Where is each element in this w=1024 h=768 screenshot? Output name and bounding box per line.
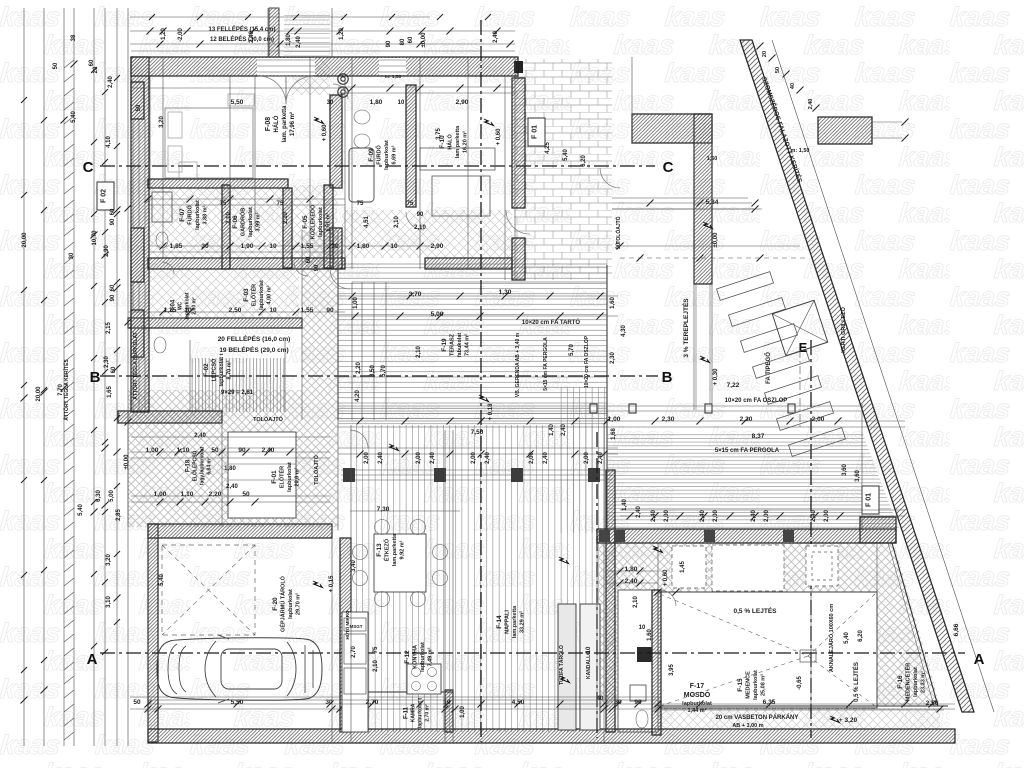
svg-text:19 BELÉPÉS (29,0 cm): 19 BELÉPÉS (29,0 cm) bbox=[219, 345, 288, 354]
svg-text:2,40: 2,40 bbox=[430, 452, 436, 464]
svg-text:90: 90 bbox=[417, 212, 424, 218]
svg-text:4,25: 4,25 bbox=[545, 142, 551, 154]
svg-text:1,20: 1,20 bbox=[339, 28, 345, 40]
svg-text:±0,00: ±0,00 bbox=[124, 454, 130, 470]
svg-text:10: 10 bbox=[390, 243, 398, 250]
svg-text:HÁLÓ: HÁLÓ bbox=[445, 133, 453, 149]
svg-text:13 FELLÉPÉS (15,4 cm): 13 FELLÉPÉS (15,4 cm) bbox=[208, 25, 275, 33]
svg-text:2,30: 2,30 bbox=[610, 352, 616, 364]
svg-text:17,96 m²: 17,96 m² bbox=[289, 112, 296, 136]
svg-text:VB. GERENDA AB + 3,40 m: VB. GERENDA AB + 3,40 m bbox=[515, 332, 521, 397]
svg-text:23,33 m²: 23,33 m² bbox=[919, 671, 926, 693]
svg-text:10: 10 bbox=[269, 243, 277, 250]
svg-text:2,10: 2,10 bbox=[416, 346, 422, 358]
svg-text:6,51 m²: 6,51 m² bbox=[324, 212, 331, 231]
svg-text:lapburkolat: lapburkolat bbox=[384, 140, 390, 170]
svg-text:8,70 m²: 8,70 m² bbox=[225, 360, 232, 379]
svg-text:lam parketta: lam parketta bbox=[455, 125, 461, 158]
svg-text:F-11: F-11 bbox=[404, 706, 410, 719]
svg-text:2,30: 2,30 bbox=[662, 416, 675, 423]
svg-text:9,92 m²: 9,92 m² bbox=[398, 540, 405, 559]
svg-text:1,00: 1,00 bbox=[608, 416, 621, 423]
svg-text:16,20 m²: 16,20 m² bbox=[461, 131, 468, 153]
svg-text:1,44 m²: 1,44 m² bbox=[688, 707, 707, 714]
svg-text:6,20: 6,20 bbox=[858, 630, 864, 642]
svg-text:±0,00: ±0,00 bbox=[713, 232, 719, 248]
svg-text:7,70: 7,70 bbox=[58, 384, 64, 396]
svg-text:lapburkolat: lapburkolat bbox=[420, 642, 426, 672]
svg-text:F-02: F-02 bbox=[203, 363, 210, 377]
svg-text:60: 60 bbox=[110, 284, 116, 291]
svg-text:2,00: 2,00 bbox=[364, 452, 370, 464]
svg-text:lapburkolat t: lapburkolat t bbox=[219, 353, 225, 386]
svg-text:1,80: 1,80 bbox=[224, 466, 236, 472]
svg-text:6,84 m²: 6,84 m² bbox=[207, 457, 213, 475]
svg-text:50: 50 bbox=[775, 67, 781, 73]
svg-text:2,30: 2,30 bbox=[104, 356, 110, 368]
svg-text:0,5 % LEJTÉS: 0,5 % LEJTÉS bbox=[852, 662, 860, 702]
svg-text:F-15: F-15 bbox=[737, 678, 744, 692]
svg-text:90: 90 bbox=[386, 40, 392, 47]
svg-text:MOSDÓ: MOSDÓ bbox=[684, 690, 711, 699]
svg-text:AB + 3,00 m: AB + 3,00 m bbox=[732, 723, 763, 729]
svg-text:38: 38 bbox=[71, 34, 77, 41]
svg-text:1,10: 1,10 bbox=[177, 447, 190, 454]
svg-text:KERTI GRILLEZŐ: KERTI GRILLEZŐ bbox=[840, 306, 847, 353]
svg-text:75: 75 bbox=[357, 201, 364, 207]
svg-text:1,10: 1,10 bbox=[181, 491, 194, 498]
svg-text:90: 90 bbox=[326, 307, 334, 314]
svg-text:2,00: 2,00 bbox=[584, 452, 590, 464]
svg-text:1,40: 1,40 bbox=[549, 424, 555, 436]
svg-text:10: 10 bbox=[639, 625, 646, 631]
svg-text:WC: WC bbox=[178, 301, 184, 310]
svg-text:60: 60 bbox=[110, 208, 116, 215]
svg-text:1,20: 1,20 bbox=[161, 28, 167, 40]
svg-text:F-05: F-05 bbox=[302, 215, 309, 229]
svg-text:NAPPALI: NAPPALI bbox=[504, 610, 510, 634]
svg-text:4,51: 4,51 bbox=[364, 216, 370, 228]
svg-text:2,10: 2,10 bbox=[283, 212, 289, 224]
svg-text:2,10: 2,10 bbox=[394, 216, 400, 228]
svg-text:+ 0,18: + 0,18 bbox=[488, 403, 494, 421]
svg-text:5,40: 5,40 bbox=[71, 111, 77, 123]
svg-text:F-14: F-14 bbox=[496, 615, 503, 629]
svg-text:7,49 m²: 7,49 m² bbox=[426, 647, 433, 666]
svg-text:lapburkolat: lapburkolat bbox=[185, 292, 191, 319]
svg-text:20,00: 20,00 bbox=[36, 386, 42, 402]
svg-text:lapburkolat: lapburkolat bbox=[753, 670, 759, 700]
svg-text:lapburkolat: lapburkolat bbox=[195, 200, 201, 230]
svg-text:3,10: 3,10 bbox=[106, 596, 112, 608]
svg-text:6,30: 6,30 bbox=[96, 490, 102, 502]
svg-text:5,40: 5,40 bbox=[159, 574, 165, 586]
svg-text:lapburkolat: lapburkolat bbox=[318, 207, 324, 237]
svg-text:2,40: 2,40 bbox=[296, 36, 302, 48]
svg-text:3,20: 3,20 bbox=[159, 116, 165, 128]
svg-text:40: 40 bbox=[597, 696, 604, 702]
svg-text:10×20 cm FA TARTÓ: 10×20 cm FA TARTÓ bbox=[522, 318, 581, 326]
svg-text:60: 60 bbox=[89, 59, 95, 66]
svg-text:3,70: 3,70 bbox=[409, 291, 422, 298]
svg-text:+ 0,30: + 0,30 bbox=[713, 368, 719, 386]
svg-text:F 01: F 01 bbox=[866, 493, 873, 507]
svg-text:2,40: 2,40 bbox=[262, 447, 275, 454]
svg-text:1,80: 1,80 bbox=[357, 243, 370, 250]
svg-text:2,00: 2,00 bbox=[416, 452, 422, 464]
svg-text:3,20: 3,20 bbox=[106, 554, 112, 566]
svg-text:2,40: 2,40 bbox=[625, 578, 638, 585]
svg-text:5,50: 5,50 bbox=[231, 99, 244, 106]
svg-text:2,00: 2,00 bbox=[764, 510, 770, 522]
svg-text:9×29 = 2,61: 9×29 = 2,61 bbox=[221, 390, 254, 396]
svg-text:3,60: 3,60 bbox=[855, 470, 861, 482]
svg-text:F-20: F-20 bbox=[272, 597, 279, 611]
svg-text:2,40: 2,40 bbox=[249, 31, 255, 43]
svg-text:HÁLÓ: HÁLÓ bbox=[272, 115, 280, 132]
svg-text:TOLÓAJTÓ: TOLÓAJTÓ bbox=[253, 415, 284, 423]
svg-text:lam.parketta: lam.parketta bbox=[512, 605, 518, 638]
svg-text:73,44 m²: 73,44 m² bbox=[463, 334, 470, 356]
svg-text:6,66: 6,66 bbox=[953, 623, 960, 636]
svg-text:1,65: 1,65 bbox=[107, 386, 113, 398]
svg-text:2,40: 2,40 bbox=[493, 31, 499, 43]
svg-text:4,20: 4,20 bbox=[355, 390, 361, 402]
svg-text:F-13: F-13 bbox=[376, 543, 383, 557]
svg-text:A: A bbox=[974, 651, 985, 668]
svg-text:ELŐTÉR: ELŐTÉR bbox=[249, 284, 257, 306]
svg-text:2,90: 2,90 bbox=[104, 245, 110, 257]
svg-text:2,00: 2,00 bbox=[824, 510, 830, 522]
svg-text:LÉPCSŐ: LÉPCSŐ bbox=[209, 358, 217, 381]
svg-text:10: 10 bbox=[398, 100, 405, 106]
svg-text:-2,00: -2,00 bbox=[178, 28, 184, 42]
svg-text:7,50: 7,50 bbox=[471, 429, 484, 436]
svg-text:4,30: 4,30 bbox=[621, 325, 627, 337]
svg-text:10,70: 10,70 bbox=[92, 230, 98, 246]
svg-text:2,20: 2,20 bbox=[356, 362, 362, 374]
svg-text:29,70 m²: 29,70 m² bbox=[294, 593, 301, 615]
svg-text:20: 20 bbox=[762, 51, 768, 57]
svg-text:ÉTKEZŐ: ÉTKEZŐ bbox=[382, 538, 390, 561]
svg-text:5,70: 5,70 bbox=[381, 365, 387, 377]
svg-text:2,00: 2,00 bbox=[664, 510, 670, 522]
svg-text:MEDENCETÉR: MEDENCETÉR bbox=[903, 663, 911, 702]
svg-text:50: 50 bbox=[136, 104, 142, 111]
svg-text:F-19: F-19 bbox=[441, 338, 448, 352]
svg-text:50: 50 bbox=[211, 447, 219, 454]
svg-text:2,10: 2,10 bbox=[373, 660, 379, 672]
svg-text:60: 60 bbox=[306, 256, 312, 263]
svg-text:2,40: 2,40 bbox=[543, 452, 549, 464]
svg-text:20,0 m²: 20,0 m² bbox=[293, 467, 300, 486]
svg-text:2,90: 2,90 bbox=[431, 243, 444, 250]
svg-text:lapburkolat: lapburkolat bbox=[259, 280, 265, 310]
svg-text:1,80: 1,80 bbox=[286, 34, 292, 46]
svg-text:F-18: F-18 bbox=[186, 459, 192, 472]
svg-text:ELŐTÉR: ELŐTÉR bbox=[277, 466, 285, 488]
svg-text:40: 40 bbox=[790, 83, 796, 89]
svg-text:F-09: F-09 bbox=[368, 148, 375, 162]
svg-text:2,20: 2,20 bbox=[209, 491, 222, 498]
svg-text:1,45: 1,45 bbox=[680, 561, 686, 573]
svg-text:10×20 cm FA OSZLOP: 10×20 cm FA OSZLOP bbox=[584, 335, 590, 388]
svg-text:2,00: 2,00 bbox=[471, 452, 477, 464]
svg-text:C: C bbox=[663, 159, 674, 176]
svg-text:5,00: 5,00 bbox=[109, 490, 115, 502]
svg-text:90: 90 bbox=[110, 218, 116, 225]
svg-text:KAMRA: KAMRA bbox=[411, 703, 417, 722]
svg-text:F-03: F-03 bbox=[243, 288, 250, 302]
svg-text:F 01: F 01 bbox=[532, 125, 539, 139]
svg-text:30: 30 bbox=[327, 100, 334, 106]
svg-text:1,85: 1,85 bbox=[170, 243, 183, 250]
svg-text:3,75: 3,75 bbox=[436, 128, 442, 140]
svg-text:±0,00: ±0,00 bbox=[421, 32, 427, 48]
svg-text:5×15 cm FA PERGOLA: 5×15 cm FA PERGOLA bbox=[543, 337, 549, 391]
svg-text:7,30: 7,30 bbox=[377, 506, 390, 513]
svg-text:6,20: 6,20 bbox=[581, 155, 587, 167]
svg-text:KONYHA: KONYHA bbox=[412, 645, 418, 669]
svg-text:2,70 m²: 2,70 m² bbox=[425, 704, 431, 722]
svg-text:25,08 m²: 25,08 m² bbox=[759, 674, 766, 696]
svg-text:2,40: 2,40 bbox=[194, 433, 206, 439]
svg-text:lam. parketta: lam. parketta bbox=[282, 105, 288, 143]
svg-text:+ 0,60: + 0,60 bbox=[496, 128, 502, 146]
svg-text:20 cm VASBETON PÁRKÁNY: 20 cm VASBETON PÁRKÁNY bbox=[716, 714, 799, 721]
svg-text:60: 60 bbox=[408, 36, 414, 43]
svg-text:TOLÓAJTÓ: TOLÓAJTÓ bbox=[614, 216, 622, 243]
svg-text:lapburkolat: lapburkolat bbox=[287, 462, 293, 492]
svg-text:A: A bbox=[87, 651, 98, 668]
svg-text:F-06: F-06 bbox=[232, 215, 239, 229]
svg-text:2,50: 2,50 bbox=[229, 307, 242, 314]
svg-text:2,40: 2,40 bbox=[485, 452, 491, 464]
svg-text:1,55: 1,55 bbox=[301, 307, 314, 314]
svg-text:12 BELÉPÉS (30,0 cm): 12 BELÉPÉS (30,0 cm) bbox=[210, 35, 274, 43]
svg-text:m: 1,50: m: 1,50 bbox=[791, 148, 810, 154]
svg-text:fabukolat: fabukolat bbox=[457, 333, 463, 358]
svg-text:20,00: 20,00 bbox=[22, 232, 28, 248]
svg-text:-0,65: -0,65 bbox=[797, 676, 803, 690]
svg-text:75: 75 bbox=[373, 646, 379, 653]
svg-text:1,80: 1,80 bbox=[625, 566, 638, 573]
svg-text:75: 75 bbox=[407, 201, 414, 207]
svg-text:5,40: 5,40 bbox=[844, 632, 850, 644]
svg-text:GARDRÓB: GARDRÓB bbox=[238, 208, 246, 236]
svg-text:2,40: 2,40 bbox=[378, 452, 384, 464]
svg-text:4,00 m²: 4,00 m² bbox=[265, 285, 272, 304]
svg-text:10: 10 bbox=[586, 646, 592, 653]
svg-text:1,80: 1,80 bbox=[370, 99, 383, 106]
svg-text:2,15: 2,15 bbox=[106, 322, 112, 334]
svg-text:F-17: F-17 bbox=[690, 683, 705, 690]
svg-text:5×15 cm FA PERGOLA: 5×15 cm FA PERGOLA bbox=[715, 448, 780, 454]
svg-text:1,25: 1,25 bbox=[164, 307, 177, 314]
svg-text:GÉPJÁRMŰ TÁROLÓ: GÉPJÁRMŰ TÁROLÓ bbox=[278, 575, 286, 632]
svg-text:TERASZ: TERASZ bbox=[449, 333, 455, 356]
svg-text:MSGT: MSGT bbox=[350, 624, 363, 629]
svg-text:75: 75 bbox=[277, 201, 284, 207]
svg-text:20 FELLÉPÉS (16,0 cm): 20 FELLÉPÉS (16,0 cm) bbox=[218, 334, 291, 343]
svg-text:lam.parketta: lam.parketta bbox=[392, 533, 398, 566]
svg-text:2,10: 2,10 bbox=[633, 596, 639, 608]
svg-text:6,69 m²: 6,69 m² bbox=[390, 145, 397, 164]
svg-text:B: B bbox=[662, 369, 673, 386]
svg-text:2,10: 2,10 bbox=[414, 225, 426, 231]
svg-text:5,70: 5,70 bbox=[569, 344, 575, 356]
svg-text:1,40: 1,40 bbox=[622, 499, 628, 511]
svg-text:ÁTTÖRT TÉGLA BURKOLAT: ÁTTÖRT TÉGLA BURKOLAT bbox=[131, 332, 139, 400]
svg-text:C: C bbox=[83, 159, 94, 176]
svg-text:75: 75 bbox=[220, 201, 227, 207]
svg-text:2,00: 2,00 bbox=[713, 510, 719, 522]
svg-text:50: 50 bbox=[133, 699, 141, 706]
svg-text:2,10: 2,10 bbox=[226, 212, 232, 224]
svg-text:3,88 m²: 3,88 m² bbox=[201, 205, 208, 224]
svg-text:FÜRDŐ: FÜRDŐ bbox=[186, 205, 193, 225]
svg-text:50: 50 bbox=[242, 491, 250, 498]
svg-text:0,5 % LEJTÉS: 0,5 % LEJTÉS bbox=[734, 606, 778, 615]
svg-text:90: 90 bbox=[314, 264, 320, 271]
svg-text:lapburkolat t: lapburkolat t bbox=[418, 698, 424, 728]
svg-text:5,40: 5,40 bbox=[563, 149, 569, 161]
svg-text:2,40: 2,40 bbox=[561, 424, 567, 436]
svg-text:33,29 m²: 33,29 m² bbox=[518, 611, 525, 633]
svg-text:80: 80 bbox=[400, 38, 406, 45]
svg-text:FA TIPEGŐ: FA TIPEGŐ bbox=[765, 352, 772, 384]
svg-text:4,10: 4,10 bbox=[106, 136, 112, 148]
svg-text:1,00: 1,00 bbox=[154, 491, 167, 498]
svg-text:1,00: 1,00 bbox=[460, 706, 466, 718]
svg-text:7,22: 7,22 bbox=[727, 382, 740, 389]
svg-text:F-12: F-12 bbox=[404, 650, 411, 664]
svg-text:2,85: 2,85 bbox=[116, 509, 122, 521]
svg-text:30: 30 bbox=[69, 252, 75, 259]
svg-text:FÜRDŐ: FÜRDŐ bbox=[375, 145, 382, 165]
svg-text:2,00: 2,00 bbox=[812, 416, 825, 423]
svg-text:KANDALLÓ: KANDALLÓ bbox=[584, 651, 592, 679]
svg-text:10×20 cm FA OSZLOP: 10×20 cm FA OSZLOP bbox=[725, 398, 788, 404]
svg-text:m: 1,50: m: 1,50 bbox=[385, 74, 402, 80]
svg-text:5,40: 5,40 bbox=[78, 504, 84, 516]
svg-text:3 % TEREPLEJTÉS: 3 % TEREPLEJTÉS bbox=[681, 298, 690, 358]
svg-text:MEDENCE: MEDENCE bbox=[745, 671, 751, 699]
svg-text:TOLÓAJTÓ: TOLÓAJTÓ bbox=[312, 454, 320, 485]
svg-text:90: 90 bbox=[110, 294, 116, 301]
svg-text:+ 0,60: + 0,60 bbox=[663, 569, 669, 587]
svg-text:50: 50 bbox=[53, 62, 59, 69]
svg-text:F-08: F-08 bbox=[265, 117, 272, 132]
svg-text:1,55: 1,55 bbox=[301, 243, 314, 250]
svg-text:60: 60 bbox=[111, 366, 117, 373]
svg-text:1,68: 1,68 bbox=[611, 428, 617, 440]
svg-text:1,60: 1,60 bbox=[610, 297, 616, 309]
svg-text:+ 3,20: + 3,20 bbox=[839, 717, 858, 724]
svg-text:3,40: 3,40 bbox=[351, 560, 357, 572]
svg-text:lapburkolat: lapburkolat bbox=[913, 667, 919, 697]
svg-text:1,30: 1,30 bbox=[499, 289, 512, 296]
svg-text:2,40: 2,40 bbox=[108, 76, 114, 88]
svg-text:F-01: F-01 bbox=[271, 470, 278, 484]
svg-text:F-07: F-07 bbox=[179, 208, 186, 222]
svg-text:8,37: 8,37 bbox=[752, 433, 765, 440]
svg-text:1,00: 1,00 bbox=[146, 447, 159, 454]
svg-text:B: B bbox=[90, 369, 101, 386]
svg-text:2,40: 2,40 bbox=[808, 99, 814, 110]
svg-text:2,70: 2,70 bbox=[351, 646, 357, 658]
svg-text:1,90: 1,90 bbox=[241, 243, 254, 250]
svg-text:F-16: F-16 bbox=[897, 675, 904, 689]
svg-text:2,90: 2,90 bbox=[456, 99, 469, 106]
svg-text:3,60: 3,60 bbox=[842, 464, 848, 476]
svg-text:10: 10 bbox=[269, 307, 277, 314]
svg-text:+ 0,60: + 0,60 bbox=[322, 124, 328, 142]
svg-text:3,95: 3,95 bbox=[669, 664, 675, 676]
svg-text:F 02: F 02 bbox=[101, 189, 108, 203]
svg-text:2,40: 2,40 bbox=[226, 484, 238, 490]
svg-text:lapburkolat: lapburkolat bbox=[248, 207, 254, 237]
svg-text:1,60: 1,60 bbox=[647, 629, 653, 641]
svg-text:3,50: 3,50 bbox=[370, 365, 376, 377]
svg-text:AKNALEJÁRÓ 100X60 cm: AKNALEJÁRÓ 100X60 cm bbox=[827, 604, 835, 672]
svg-text:1,00: 1,00 bbox=[353, 297, 359, 309]
svg-text:lapburkolat: lapburkolat bbox=[288, 589, 294, 619]
